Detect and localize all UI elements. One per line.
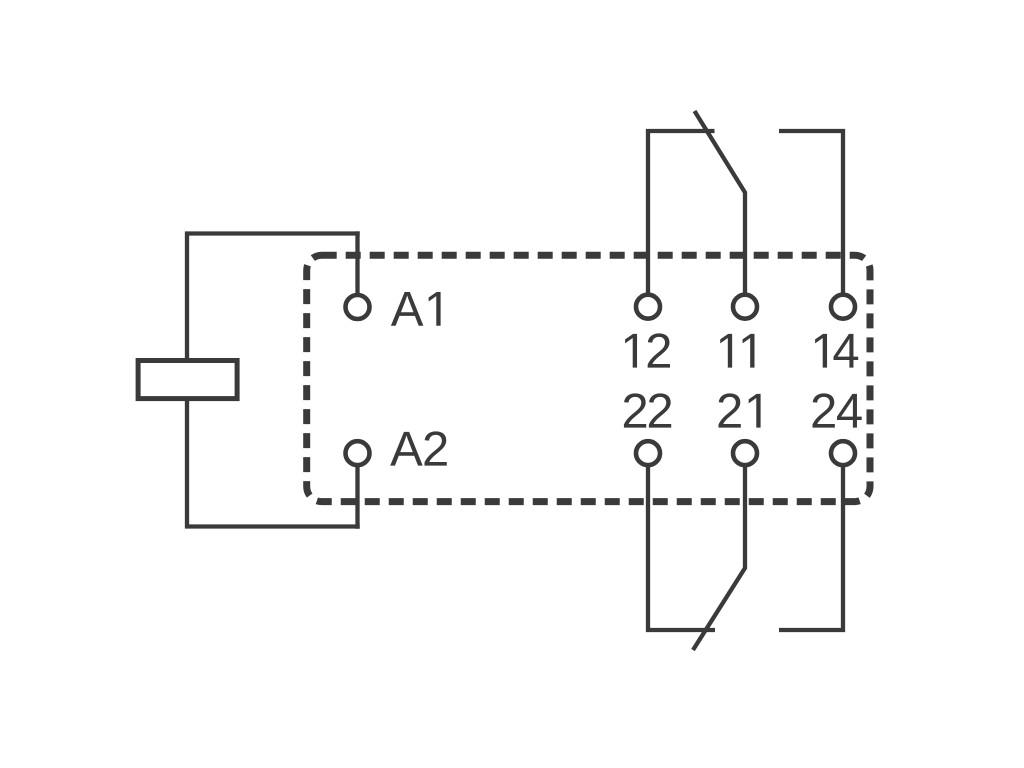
terminal A2 <box>346 441 370 465</box>
terminal 24 <box>831 441 855 465</box>
wire contact arm 21-22 (bottom changeover, shown closed to 22) <box>693 453 745 650</box>
label 22 <box>624 393 671 427</box>
label A2 <box>390 431 447 465</box>
wire pin 22 with NC bar (bottom contact) <box>648 453 715 630</box>
wire pin 12 with NC bar (top contact) <box>648 131 715 307</box>
terminal 21 <box>733 441 757 465</box>
wire contact arm 11-12 (top changeover, shown closed to 12) <box>695 111 746 307</box>
wire pin 24 with NO bar (bottom contact) <box>779 453 843 630</box>
label 11 <box>720 334 754 368</box>
terminal 22 <box>636 441 660 465</box>
wire A2 drop <box>355 453 359 529</box>
terminal 11 <box>733 295 757 319</box>
label 24 <box>813 393 862 427</box>
wire coil loop (A1 top feed, left vertical, A2 bottom return) <box>187 234 360 527</box>
label 14 <box>815 334 858 368</box>
coil K1 <box>138 361 237 399</box>
relay enclosure (dashed outline) <box>307 255 870 501</box>
label 12 <box>625 333 670 367</box>
terminal 12 <box>636 295 660 319</box>
terminal 14 <box>831 295 855 319</box>
wire A1 drop <box>355 231 359 307</box>
label A1 <box>391 292 441 326</box>
wire pin 14 with NO bar (top contact) <box>779 131 843 307</box>
label 21 <box>719 393 761 427</box>
terminal A1 <box>346 295 370 319</box>
